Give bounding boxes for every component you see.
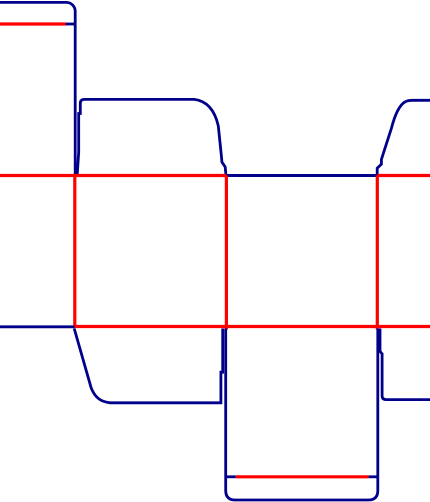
cut line: top dust flap above panel 4 (left slant with jog, top edge, cropped right)	[377, 100, 430, 175]
cut line: top dust flap above panel 2 (left edge, top edge, right slant)	[77, 99, 226, 175]
fold line: main horizontal crease row 1, right part (red)	[377, 174, 430, 177]
cut line: top edge of panel 3 (blue, between vertical folds)	[225, 174, 378, 177]
cut line: bottom dust flap under panel 4 (left edge with jog, bottom edge, cropped right)	[380, 329, 430, 400]
cut line: bottom dust flap under panel 2 (left slant, bottom edge, right edge with jog)	[74, 329, 223, 403]
fold line: main horizontal crease row 1, left part (red)	[0, 174, 226, 177]
fold line: bottom tuck crease (red)	[236, 475, 369, 478]
cut line: blue stub joining lid tuck fold to lid right edge	[65, 23, 75, 26]
fold line: vertical crease between panel 2 and 3	[225, 176, 228, 330]
fold line: vertical crease between panel 1 and 2	[73, 176, 76, 328]
cut line: bottom tuck flap under panel 3 (left edge, rounded bottom, right edge)	[226, 329, 378, 501]
cut line: lid flap top edge with rounded corner and right edge (flap above panel 1)	[0, 2, 75, 175]
fold line: main horizontal crease row 2 (red, from panel 2 to right edge)	[75, 325, 430, 328]
fold line: lid tuck crease (red, top left)	[0, 22, 66, 25]
cut line: blue stub right of bottom tuck fold	[369, 475, 378, 478]
cut line: blue stub left of bottom tuck fold	[226, 475, 236, 478]
fold line: vertical crease between panel 3 and 4	[376, 176, 379, 330]
cut line: bottom edge of panel 1 (blue)	[0, 325, 75, 328]
